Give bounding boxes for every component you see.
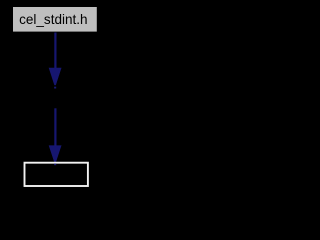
svg-text:cel_stdint.h: cel_stdint.h [19, 11, 88, 27]
file node cel_stdint.h [12, 6, 98, 32]
wire edge 2 lower segment [54, 108, 56, 146]
arrow tip dot inside node [54, 164, 56, 166]
arrowhead of edge 2 [49, 145, 62, 164]
hidden node border gap over arrow tip [51, 85, 59, 87]
included file node (empty) [25, 163, 88, 186]
wire edge 1 upper segment [54, 33, 56, 69]
include dependency graph for cel_stdint.h [0, 0, 112, 195]
arrow tip dot below hidden node border [54, 87, 56, 89]
arrowhead of edge 1 [49, 68, 62, 88]
